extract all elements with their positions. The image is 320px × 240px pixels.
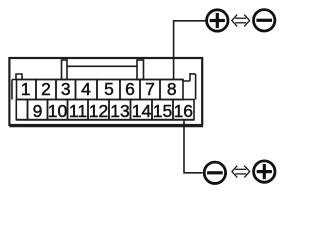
pin 16 box bbox=[173, 100, 194, 120]
svg-text:1: 1 bbox=[21, 79, 31, 99]
bottom battery negative terminal symbol bbox=[204, 162, 225, 183]
right notch bbox=[190, 74, 196, 81]
pin 13 box bbox=[109, 100, 131, 120]
pin 6 box bbox=[120, 80, 140, 100]
svg-text:5: 5 bbox=[104, 79, 114, 99]
top double arrow bbox=[232, 15, 250, 27]
svg-text:9: 9 bbox=[33, 101, 43, 121]
wire from pin 16 to bottom battery negative bbox=[184, 120, 203, 173]
pin 12 box bbox=[88, 100, 109, 120]
latch right post bbox=[137, 60, 144, 80]
svg-text:14: 14 bbox=[132, 101, 152, 121]
svg-text:8: 8 bbox=[167, 79, 177, 99]
wire from pin 8 to top battery positive bbox=[174, 21, 206, 80]
svg-text:13: 13 bbox=[110, 101, 129, 121]
pin 14 box bbox=[131, 100, 153, 120]
svg-text:10: 10 bbox=[48, 101, 68, 121]
row2 blank spacer box bbox=[16, 100, 27, 120]
connector housing inner right wall bbox=[195, 74, 197, 100]
pin 9 box bbox=[28, 100, 48, 120]
pin numbers row 1 bbox=[21, 79, 193, 121]
row1 right spacer top bbox=[183, 80, 190, 82]
pin 8 box bbox=[160, 80, 183, 100]
svg-text:2: 2 bbox=[41, 79, 51, 99]
pin 2 box bbox=[36, 80, 56, 100]
left notch bbox=[16, 74, 22, 80]
pin 3 box bbox=[56, 80, 76, 100]
bottom battery positive terminal symbol bbox=[254, 161, 275, 182]
pin 15 box bbox=[152, 100, 173, 120]
svg-text:4: 4 bbox=[81, 79, 91, 99]
latch crossbar bbox=[67, 65, 137, 67]
svg-text:7: 7 bbox=[145, 79, 155, 99]
pin 11 box bbox=[68, 100, 89, 120]
svg-text:15: 15 bbox=[153, 101, 172, 121]
pin 4 box bbox=[76, 80, 98, 100]
svg-text:11: 11 bbox=[69, 101, 87, 121]
pins top line bbox=[12, 79, 183, 81]
pin 10 box bbox=[48, 100, 68, 120]
bottom double arrow bbox=[232, 166, 250, 178]
row2 bottom heavier line bbox=[16, 119, 194, 121]
top battery negative terminal symbol bbox=[254, 10, 275, 31]
svg-text:3: 3 bbox=[61, 79, 71, 99]
svg-text:12: 12 bbox=[89, 101, 108, 121]
pin 7 box bbox=[140, 80, 160, 100]
pin 5 box bbox=[97, 80, 120, 100]
svg-text:16: 16 bbox=[174, 101, 193, 121]
connector housing outer outline bbox=[9, 58, 202, 125]
connector housing inner left wall bbox=[11, 80, 13, 100]
pin 1 box bbox=[17, 80, 37, 100]
svg-text:6: 6 bbox=[125, 79, 135, 99]
connector housing bottom thick edge bbox=[10, 124, 204, 127]
latch left post bbox=[62, 60, 68, 80]
top battery positive terminal symbol bbox=[207, 10, 228, 31]
